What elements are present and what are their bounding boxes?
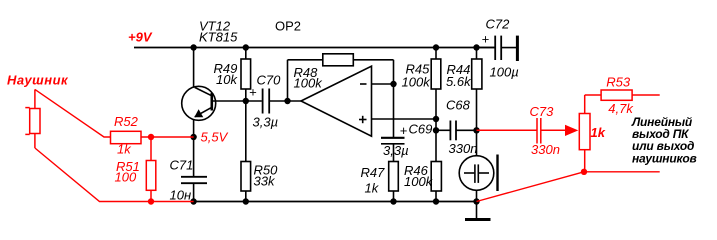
wire base: [212, 100, 262, 102]
svg-text:100: 100: [115, 170, 137, 185]
wire headphone bottom to ground rail: [35, 148, 194, 202]
capacitor C68: [436, 121, 477, 141]
svg-text:R47: R47: [361, 165, 386, 180]
svg-text:100µ: 100µ: [490, 65, 519, 80]
svg-text:4,7k: 4,7k: [608, 101, 634, 116]
node collector on rail: [190, 44, 196, 50]
node R50 bottom: [243, 198, 249, 204]
wire output bottom: [477, 172, 660, 202]
node R49 top on rail: [243, 44, 249, 50]
wire output top through R53: [585, 94, 660, 96]
capacitor C70: [263, 89, 270, 114]
svg-text:100k: 100k: [404, 174, 434, 189]
node R51 bottom: [148, 198, 154, 204]
resistor R51: [146, 137, 156, 202]
op-amp OP2 triangle: [301, 66, 372, 136]
node emitter 5,5V: [190, 134, 196, 140]
resistor R46: [431, 162, 441, 202]
node C68 right / R44: [473, 127, 479, 133]
potentiometer wiper arrow: [565, 125, 578, 136]
wire C70 to op-amp input: [269, 100, 301, 102]
resistor R49: [241, 48, 251, 102]
node R44/C72 on rail: [473, 44, 479, 50]
svg-text:C69: C69: [409, 122, 433, 137]
resistor R50: [241, 101, 251, 202]
wire noninverting input: [372, 118, 437, 120]
node R45 top on rail: [433, 44, 439, 50]
svg-text:Наушник: Наушник: [7, 73, 69, 88]
svg-text:+9V: +9V: [128, 30, 153, 45]
svg-text:+: +: [482, 31, 490, 46]
node noninverting input / R45: [433, 116, 439, 122]
wire +9V power rail: [134, 47, 495, 49]
svg-text:5.6k: 5.6k: [446, 74, 472, 89]
ground: [465, 202, 491, 220]
wire headphone top to R52: [35, 89, 111, 137]
earphone capsule BF1: [459, 130, 497, 201]
wire feedback loop: [288, 60, 394, 101]
svg-text:R52: R52: [114, 114, 139, 129]
node ground: [473, 198, 479, 204]
svg-text:10k: 10k: [216, 72, 238, 87]
capacitor C72: [477, 36, 518, 61]
svg-text:наушников: наушников: [632, 151, 697, 165]
svg-text:C68: C68: [446, 97, 471, 112]
headphone jack: [25, 89, 40, 148]
svg-text:1k: 1k: [591, 125, 606, 140]
node C71 bottom: [190, 198, 196, 204]
wire inverting input: [372, 83, 394, 85]
svg-text:R53: R53: [606, 74, 631, 89]
svg-text:C73: C73: [530, 104, 555, 119]
svg-text:KT815: KT815: [199, 30, 238, 45]
svg-text:33k: 33k: [254, 173, 276, 188]
node R47 bottom: [390, 198, 396, 204]
potentiometer 1k: [579, 95, 590, 172]
svg-text:+: +: [400, 123, 408, 138]
svg-text:C72: C72: [486, 17, 511, 32]
resistor R52: [111, 131, 194, 143]
wire R45 to C68 node to R46: [435, 119, 437, 162]
resistor R45: [431, 48, 441, 120]
capacitor C71: [181, 137, 207, 202]
node base/R49/R50: [243, 98, 249, 104]
svg-text:1k: 1k: [365, 181, 380, 196]
capacitor C69: [381, 84, 405, 162]
wire ground rail: [194, 201, 477, 203]
svg-text:330n: 330n: [449, 141, 478, 156]
svg-text:3,3µ: 3,3µ: [253, 114, 279, 129]
resistor R53: [601, 90, 632, 100]
resistor R48: [323, 54, 354, 66]
node inverting input: [390, 81, 396, 87]
node C68 left: [433, 127, 439, 133]
transistor VT12 KT815: [182, 48, 216, 138]
resistor R47: [389, 162, 399, 202]
svg-text:100k: 100k: [294, 76, 324, 91]
svg-text:10н: 10н: [170, 187, 192, 202]
node R52/R51: [148, 134, 154, 140]
svg-text:5,5V: 5,5V: [201, 129, 229, 144]
capacitor C73: [477, 118, 566, 144]
node potentiometer bottom: [581, 169, 587, 175]
svg-text:C70: C70: [257, 73, 282, 88]
svg-text:C71: C71: [170, 158, 194, 173]
svg-text:1k: 1k: [117, 142, 132, 157]
node R46 bottom: [433, 198, 439, 204]
svg-text:330n: 330n: [531, 142, 560, 157]
svg-text:OP2: OP2: [275, 19, 301, 34]
node op-amp apex: [284, 98, 290, 104]
svg-text:100k: 100k: [402, 75, 432, 90]
resistor R44: [472, 48, 482, 131]
svg-text:3,3µ: 3,3µ: [383, 143, 409, 158]
